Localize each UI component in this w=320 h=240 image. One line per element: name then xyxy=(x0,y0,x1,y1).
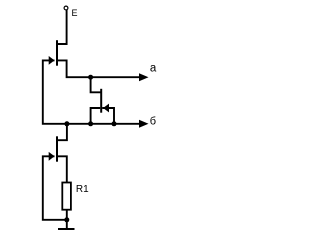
output arrow a xyxy=(139,73,149,81)
wire VT3 gate to ground bus xyxy=(43,156,67,220)
label a xyxy=(150,63,157,75)
junction node a / VT2 drain xyxy=(88,75,93,80)
transistor VT1 gate arrow xyxy=(49,56,55,65)
wire VT3 source to R1 xyxy=(57,156,67,182)
wire node b to VT3 drain xyxy=(57,124,67,140)
ground bar xyxy=(58,228,75,230)
svg-text:б: б xyxy=(150,115,156,127)
junction node b / VT2 gate xyxy=(112,121,117,126)
svg-text:а: а xyxy=(150,63,157,75)
junction node b / VT2 source xyxy=(88,121,93,126)
wire R1 to ground xyxy=(66,210,68,229)
output arrow b xyxy=(139,120,149,128)
label E xyxy=(72,8,78,18)
transistor VT2 channel bar xyxy=(100,89,102,113)
wire VT2 drain xyxy=(91,77,102,92)
wire VT1 source to node a xyxy=(57,60,140,77)
transistor VT2 gate arrow xyxy=(103,104,109,113)
junction node ground xyxy=(64,217,69,222)
wire VT2 source to node b xyxy=(91,108,101,124)
transistor VT3 gate arrow xyxy=(49,152,55,161)
junction node b / VT3 drain xyxy=(64,121,69,126)
terminal E circle xyxy=(64,6,68,10)
wire E supply to VT1 drain xyxy=(57,10,67,44)
svg-text:E: E xyxy=(72,8,78,18)
resistor R1 body xyxy=(62,183,71,210)
wire VT2 gate to node b xyxy=(102,108,114,124)
label b xyxy=(150,115,156,127)
label R1 xyxy=(76,184,89,195)
wire VT1 gate / bus to node b xyxy=(43,60,140,123)
svg-text:R1: R1 xyxy=(76,184,89,195)
transistor VT3 channel bar xyxy=(56,136,58,161)
transistor VT1 channel bar xyxy=(56,40,58,65)
